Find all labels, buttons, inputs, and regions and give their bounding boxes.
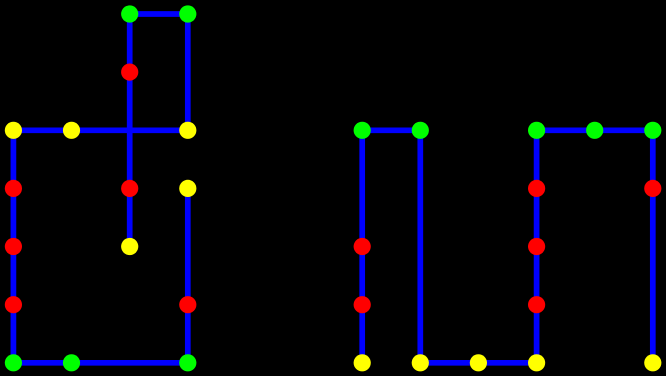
node H (red) [121, 180, 138, 197]
node Y (green) [644, 122, 661, 139]
node P (green) [179, 354, 196, 371]
wire edge A-B [130, 11, 188, 17]
node O (green) [63, 354, 80, 371]
node L (red) [5, 296, 22, 313]
wire edge W-X [537, 127, 595, 133]
node R (green) [412, 122, 429, 139]
node A (green) [121, 5, 138, 22]
wire edge H-K [127, 188, 133, 246]
wire edge B-F [185, 14, 191, 130]
node B (green) [179, 5, 196, 22]
node X (green) [586, 122, 603, 139]
node V (yellow) [412, 354, 429, 371]
wire edge T-U [359, 305, 365, 363]
node U (yellow) [354, 354, 371, 371]
node AC (red) [528, 296, 545, 313]
wire edge AA-AF [650, 188, 656, 362]
node K (yellow) [121, 238, 138, 255]
wire edge S-T [359, 247, 365, 305]
wire edge AB-AC [534, 247, 540, 305]
wire edge J-L [11, 247, 17, 305]
wire edge Z-AB [534, 188, 540, 246]
wire edge M-P [185, 305, 191, 363]
node F (yellow) [179, 122, 196, 139]
wire edge L-N [11, 305, 17, 363]
wire edge W-Z [534, 130, 540, 188]
wire edge O-P [72, 360, 188, 366]
wire edge C-H [127, 72, 133, 188]
wire edge R-V [417, 130, 423, 362]
node N (green) [5, 354, 22, 371]
node M (red) [179, 296, 196, 313]
node T (red) [354, 296, 371, 313]
wire edge Y-AA [650, 130, 656, 188]
wire edge Q-S [359, 130, 365, 246]
node J (red) [5, 238, 22, 255]
node W (green) [528, 122, 545, 139]
node C (red) [121, 64, 138, 81]
node D (yellow) [5, 122, 22, 139]
wire edge D-E [13, 127, 71, 133]
node S (red) [354, 238, 371, 255]
wire edge AC-AE [534, 305, 540, 363]
wire edge G-J [11, 188, 17, 246]
wire edge Q-R [362, 127, 420, 133]
wire edge D-G [11, 130, 17, 188]
wire edge E-F [72, 127, 188, 133]
node AE (yellow) [528, 354, 545, 371]
node I (yellow) [179, 180, 196, 197]
node Z (red) [528, 180, 545, 197]
wire edge N-O [13, 360, 71, 366]
wire edge X-Y [595, 127, 653, 133]
wire edge A-C [127, 14, 133, 72]
node AA (red) [644, 180, 661, 197]
node E (yellow) [63, 122, 80, 139]
node AB (red) [528, 238, 545, 255]
node AD (yellow) [470, 354, 487, 371]
wire edge AD-AE [478, 360, 536, 366]
node Q (green) [354, 122, 371, 139]
wire edge V-AD [420, 360, 478, 366]
wire edge I-M [185, 188, 191, 304]
node AF (yellow) [644, 354, 661, 371]
node G (red) [5, 180, 22, 197]
